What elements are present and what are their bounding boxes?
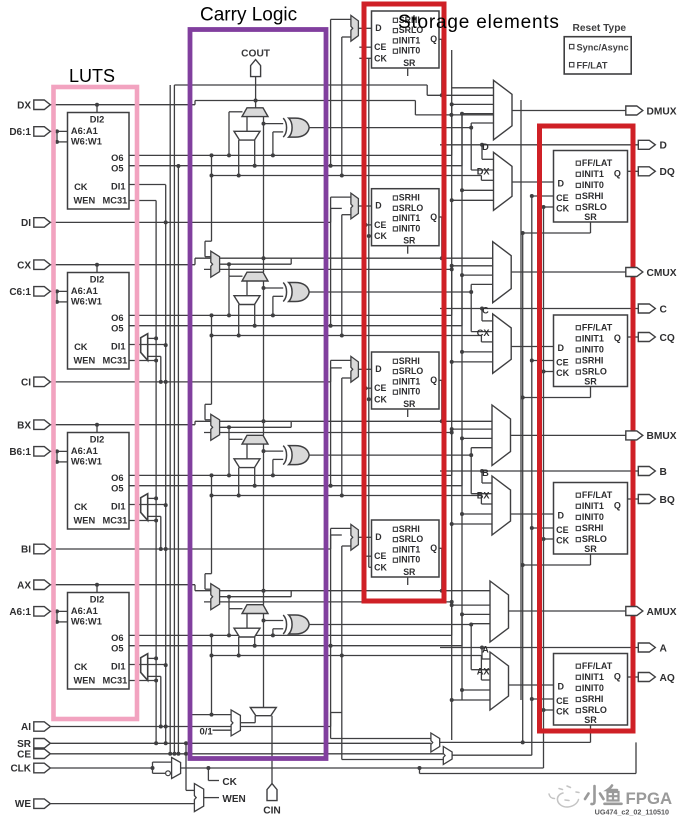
svg-text:INIT1: INIT1 [582, 333, 604, 343]
svg-text:SRHI: SRHI [582, 523, 604, 533]
svg-text:SR: SR [584, 544, 597, 554]
svg-text:O6: O6 [111, 313, 123, 323]
svg-text:A6:A1: A6:A1 [71, 446, 98, 456]
svg-text:CQ: CQ [660, 333, 675, 344]
svg-text:AMUX: AMUX [647, 607, 677, 618]
svg-text:CK: CK [74, 502, 88, 512]
svg-text:CK: CK [374, 563, 387, 573]
svg-text:DI2: DI2 [90, 435, 104, 445]
svg-text:BMUX: BMUX [647, 431, 677, 442]
svg-text:Sync/Async: Sync/Async [577, 42, 629, 52]
svg-text:SR: SR [17, 739, 32, 750]
svg-text:D: D [375, 23, 381, 33]
svg-text:Q: Q [430, 34, 437, 44]
svg-text:CE: CE [374, 220, 386, 230]
svg-text:CK: CK [374, 54, 387, 64]
svg-text:LUTS: LUTS [69, 66, 115, 86]
svg-text:SRLO: SRLO [582, 367, 607, 377]
svg-text:CK: CK [374, 395, 387, 405]
svg-text:AX: AX [477, 666, 491, 676]
svg-text:DI1: DI1 [111, 182, 125, 192]
svg-text:A: A [482, 645, 489, 655]
svg-text:FF/LAT: FF/LAT [582, 158, 613, 168]
svg-text:CIN: CIN [263, 806, 281, 817]
svg-text:CE: CE [374, 551, 386, 561]
svg-text:MC31: MC31 [102, 516, 127, 526]
svg-text:D: D [558, 179, 565, 189]
svg-text:D: D [558, 511, 565, 521]
svg-text:D: D [660, 141, 667, 152]
svg-text:DI2: DI2 [90, 595, 104, 605]
svg-text:FF/LAT: FF/LAT [577, 60, 608, 70]
svg-text:SRLO: SRLO [399, 203, 424, 213]
svg-text:DQ: DQ [660, 167, 675, 178]
svg-text:CX: CX [17, 260, 31, 271]
svg-text:INIT0: INIT0 [399, 46, 421, 56]
svg-text:CK: CK [556, 536, 569, 546]
svg-text:CK: CK [74, 342, 88, 352]
svg-text:CE: CE [556, 193, 569, 203]
svg-text:SRLO: SRLO [399, 534, 424, 544]
svg-text:CE: CE [374, 383, 386, 393]
svg-text:CX: CX [477, 328, 491, 338]
svg-text:CE: CE [17, 749, 31, 760]
svg-text:C: C [660, 304, 668, 315]
svg-text:UG474_c2_02_110510: UG474_c2_02_110510 [595, 808, 669, 817]
svg-text:MC31: MC31 [102, 676, 127, 686]
svg-text:O5: O5 [111, 323, 123, 333]
svg-text:INIT1: INIT1 [582, 672, 604, 682]
svg-text:CE: CE [556, 525, 569, 535]
svg-text:D6:1: D6:1 [9, 127, 31, 138]
svg-text:DI1: DI1 [111, 342, 125, 352]
svg-text:SR: SR [403, 399, 416, 409]
svg-text:FF/LAT: FF/LAT [582, 661, 613, 671]
svg-text:SR: SR [584, 212, 597, 222]
svg-text:DI1: DI1 [111, 502, 125, 512]
svg-text:SR: SR [403, 58, 416, 68]
svg-text:INIT0: INIT0 [582, 180, 604, 190]
svg-text:CE: CE [374, 42, 386, 52]
svg-text:FPGA: FPGA [626, 789, 673, 808]
svg-text:W6:W1: W6:W1 [71, 137, 102, 147]
svg-text:INIT1: INIT1 [399, 35, 421, 45]
svg-text:SRHI: SRHI [582, 356, 604, 366]
svg-text:SR: SR [584, 377, 597, 387]
svg-text:A6:1: A6:1 [9, 607, 31, 618]
svg-text:CK: CK [556, 368, 569, 378]
svg-text:CK: CK [556, 204, 569, 214]
svg-text:INIT1: INIT1 [582, 501, 604, 511]
svg-text:DI2: DI2 [90, 115, 104, 125]
svg-text:D: D [558, 343, 565, 353]
svg-text:FF/LAT: FF/LAT [582, 490, 613, 500]
svg-text:SR: SR [584, 715, 597, 725]
svg-text:SRLO: SRLO [399, 366, 424, 376]
svg-text:CK: CK [222, 777, 237, 788]
svg-text:BX: BX [477, 490, 491, 500]
svg-text:Q: Q [430, 375, 437, 385]
svg-text:SRHI: SRHI [582, 191, 604, 201]
svg-text:INIT0: INIT0 [399, 555, 421, 565]
svg-text:INIT0: INIT0 [582, 512, 604, 522]
svg-text:W6:W1: W6:W1 [71, 297, 102, 307]
svg-text:CE: CE [556, 696, 569, 706]
svg-text:A6:A1: A6:A1 [71, 126, 98, 136]
svg-text:COUT: COUT [241, 49, 271, 60]
svg-text:Q: Q [614, 671, 621, 681]
svg-text:BI: BI [21, 545, 31, 556]
svg-text:BX: BX [17, 420, 31, 431]
svg-text:B: B [482, 468, 489, 478]
svg-text:DX: DX [477, 167, 491, 177]
svg-text:CK: CK [556, 707, 569, 717]
svg-text:SR: SR [403, 567, 416, 577]
svg-text:O6: O6 [111, 633, 123, 643]
svg-text:CMUX: CMUX [647, 268, 677, 279]
svg-text:INIT1: INIT1 [582, 169, 604, 179]
svg-text:DI1: DI1 [111, 662, 125, 672]
svg-text:CK: CK [374, 231, 387, 241]
svg-text:FF/LAT: FF/LAT [582, 322, 613, 332]
svg-text:WEN: WEN [222, 794, 245, 805]
svg-text:CK: CK [74, 182, 88, 192]
svg-text:D: D [558, 682, 565, 692]
svg-text:AI: AI [21, 722, 31, 733]
svg-text:B: B [660, 467, 667, 478]
svg-text:A6:A1: A6:A1 [71, 606, 98, 616]
svg-text:C: C [482, 306, 489, 316]
svg-text:MC31: MC31 [102, 356, 127, 366]
svg-text:INIT1: INIT1 [399, 376, 421, 386]
svg-text:DX: DX [17, 100, 31, 111]
svg-text:D: D [375, 201, 381, 211]
svg-text:CLK: CLK [10, 764, 31, 775]
svg-text:DMUX: DMUX [647, 106, 677, 117]
svg-text:SR: SR [403, 236, 416, 246]
svg-text:DI2: DI2 [90, 275, 104, 285]
svg-text:W6:W1: W6:W1 [71, 457, 102, 467]
svg-text:BQ: BQ [660, 495, 675, 506]
svg-text:SRLO: SRLO [582, 705, 607, 715]
svg-text:O6: O6 [111, 153, 123, 163]
svg-text:B6:1: B6:1 [9, 447, 31, 458]
svg-text:INIT0: INIT0 [582, 683, 604, 693]
svg-text:D: D [375, 364, 381, 374]
svg-text:AQ: AQ [660, 673, 675, 684]
svg-text:Q: Q [430, 543, 437, 553]
svg-text:INIT0: INIT0 [399, 223, 421, 233]
svg-text:Q: Q [614, 333, 621, 343]
svg-text:WEN: WEN [74, 196, 96, 206]
svg-text:W6:W1: W6:W1 [71, 617, 102, 627]
svg-text:O6: O6 [111, 473, 123, 483]
svg-text:WEN: WEN [74, 676, 96, 686]
svg-text:AX: AX [17, 580, 31, 591]
svg-text:WE: WE [15, 799, 31, 810]
svg-text:SRLO: SRLO [582, 202, 607, 212]
svg-text:O5: O5 [111, 483, 123, 493]
svg-text:SRLO: SRLO [582, 534, 607, 544]
svg-text:SRHI: SRHI [582, 694, 604, 704]
svg-text:D: D [375, 532, 381, 542]
svg-text:Carry Logic: Carry Logic [200, 5, 297, 26]
svg-text:SRHI: SRHI [399, 193, 420, 203]
svg-text:Q: Q [614, 168, 621, 178]
svg-text:A6:A1: A6:A1 [71, 286, 98, 296]
svg-text:INIT1: INIT1 [399, 213, 421, 223]
svg-text:WEN: WEN [74, 516, 96, 526]
svg-text:WEN: WEN [74, 356, 96, 366]
svg-text:C6:1: C6:1 [9, 287, 31, 298]
svg-text:MC31: MC31 [102, 196, 127, 206]
svg-text:O5: O5 [111, 643, 123, 653]
svg-text:0/1: 0/1 [200, 726, 214, 737]
svg-text:A: A [660, 643, 668, 654]
svg-text:SRHI: SRHI [399, 356, 420, 366]
svg-text:SRHI: SRHI [399, 524, 420, 534]
svg-text:Q: Q [430, 212, 437, 222]
svg-text:O5: O5 [111, 163, 123, 173]
svg-text:CE: CE [556, 357, 569, 367]
svg-text:D: D [482, 142, 489, 152]
svg-text:CI: CI [21, 378, 31, 389]
svg-text:Reset Type: Reset Type [573, 23, 627, 34]
svg-text:DI: DI [21, 218, 31, 229]
svg-text:INIT1: INIT1 [399, 544, 421, 554]
svg-text:Q: Q [614, 500, 621, 510]
svg-text:Storage elements: Storage elements [398, 12, 560, 33]
svg-text:CK: CK [74, 662, 88, 672]
svg-text:INIT0: INIT0 [399, 387, 421, 397]
svg-text:INIT0: INIT0 [582, 345, 604, 355]
